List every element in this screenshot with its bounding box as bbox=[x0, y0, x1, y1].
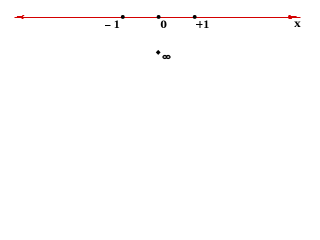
svg-text:0: 0 bbox=[160, 18, 167, 31]
svg-text:1: 1 bbox=[114, 17, 120, 31]
svg-text:1: 1 bbox=[203, 17, 209, 31]
diamond (point-at-infinity marker) bbox=[156, 50, 161, 55]
svg-text:x: x bbox=[294, 17, 301, 30]
infinity symbol: left lobe bbox=[163, 56, 167, 59]
right arrowhead: upper barb outer segment bbox=[289, 15, 291, 16]
node dot at 0 bbox=[157, 15, 161, 19]
node dot at -1 bbox=[121, 15, 125, 19]
right arrowhead: lower barb bbox=[289, 18, 292, 19]
label +1: plus horizontal bar bbox=[196, 24, 202, 25]
left arrowhead: lower barb bbox=[22, 18, 24, 19]
label +1: plus vertical bar bbox=[199, 21, 200, 28]
left arrowhead: upper barb inner segment bbox=[17, 16, 23, 17]
left arrowhead: upper barb outer segment bbox=[22, 15, 24, 16]
right arrowhead: upper barb inner segment bbox=[288, 16, 297, 17]
node dot at +1 bbox=[193, 15, 197, 19]
infinity symbol: right lobe bbox=[166, 56, 170, 59]
label -1: minus bar bbox=[105, 25, 111, 26]
wire (red number-line axis shaft, 1px row y=17) bbox=[15, 17, 301, 18]
